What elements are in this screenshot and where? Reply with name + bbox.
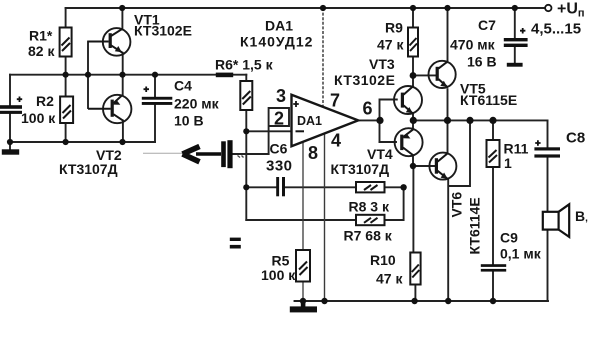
svg-text:R9: R9 [385, 20, 403, 36]
svg-text:C7: C7 [478, 17, 496, 33]
svg-text:VT3: VT3 [369, 56, 395, 72]
svg-text:КТ3107Д: КТ3107Д [59, 161, 118, 177]
svg-text:R2: R2 [36, 93, 54, 109]
svg-text:КТ3107Д: КТ3107Д [331, 161, 390, 177]
svg-text:4,5...15: 4,5...15 [531, 21, 581, 38]
svg-text:C9: C9 [500, 230, 518, 246]
svg-text:КТ6114Е: КТ6114Е [467, 197, 483, 254]
svg-text:R7 68 к: R7 68 к [344, 228, 393, 244]
svg-text:330: 330 [266, 158, 293, 175]
svg-text:КТ3102Е: КТ3102Е [334, 72, 395, 88]
svg-text:3: 3 [276, 86, 286, 106]
svg-text:4: 4 [331, 131, 341, 151]
svg-text:6: 6 [363, 99, 373, 119]
svg-text:470 мк: 470 мк [450, 37, 496, 53]
svg-text:1: 1 [504, 155, 512, 171]
svg-text:7: 7 [330, 91, 340, 111]
svg-text:C8: C8 [566, 130, 585, 147]
svg-text:КТ6115Е: КТ6115Е [460, 92, 517, 108]
svg-text:DA1: DA1 [265, 18, 293, 34]
svg-text:8: 8 [308, 143, 318, 163]
svg-text:К140УД12: К140УД12 [240, 34, 313, 50]
svg-text:16 В: 16 В [467, 54, 497, 70]
svg-text:0,1 мк: 0,1 мк [500, 246, 542, 262]
svg-text:10 В: 10 В [174, 113, 204, 129]
svg-text:C4: C4 [174, 78, 192, 94]
svg-text:C6: C6 [270, 141, 288, 157]
svg-text:100 к: 100 к [21, 110, 56, 126]
svg-text:R10: R10 [370, 252, 396, 268]
svg-text:КТ3102Е: КТ3102Е [134, 23, 192, 39]
svg-text:R1*: R1* [29, 28, 53, 44]
svg-text:47 к: 47 к [376, 271, 403, 287]
svg-text:2: 2 [274, 109, 284, 129]
svg-text:VT4: VT4 [367, 146, 393, 162]
svg-text:220 мк: 220 мк [174, 96, 220, 112]
svg-text:100 к: 100 к [261, 267, 296, 283]
svg-text:VT6: VT6 [449, 192, 465, 218]
svg-text:DA1: DA1 [297, 114, 322, 128]
svg-text:R8 3 к: R8 3 к [349, 199, 390, 215]
svg-text:82 к: 82 к [28, 43, 55, 59]
svg-text:R6* 1,5 к: R6* 1,5 к [215, 57, 274, 73]
svg-text:47 к: 47 к [377, 37, 404, 53]
